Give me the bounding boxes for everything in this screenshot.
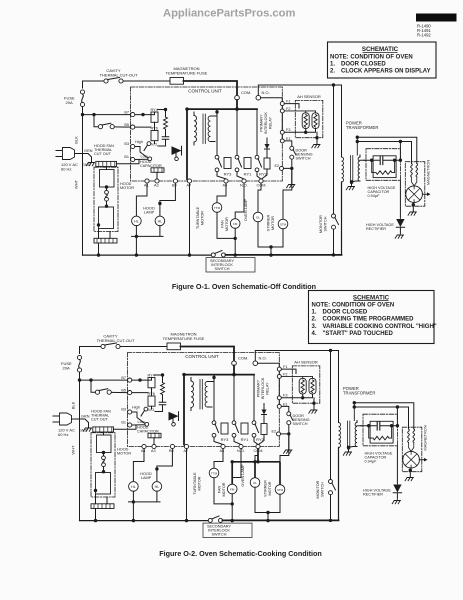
wire top rail to control unit (fig 2) <box>181 347 235 361</box>
wire monitor switch (fig 2) <box>330 351 332 480</box>
label F3 <box>286 128 290 132</box>
label CONTROL UNIT (fig 2) <box>185 354 219 359</box>
wire fan motor to rail <box>234 228 236 255</box>
wire to B7 (fig 2) <box>80 379 128 381</box>
terminal A7 <box>187 179 191 183</box>
turntable motor TTM (fig 2) <box>209 468 219 478</box>
svg-text:MOTOR: MOTOR <box>198 476 202 490</box>
wire RY1 to NO <box>237 172 244 179</box>
label B9 (fig 2) <box>169 449 174 453</box>
svg-text:TRANSFORMER: TRANSFORMER <box>343 391 375 396</box>
hood motor bottom block <box>94 238 117 243</box>
terminal N.O. bottom <box>242 179 246 183</box>
terminal COM bottom <box>259 179 263 183</box>
svg-text:B3: B3 <box>121 408 126 412</box>
wire A1 to hood lamp 1 <box>136 183 147 216</box>
label High <box>135 140 143 144</box>
node fm rail (fig 2) <box>231 519 234 522</box>
magnetron temperature fuse (fig 2) <box>167 343 181 350</box>
svg-text:COOKING TIME PROGRAMMED: COOKING TIME PROGRAMMED <box>323 317 415 323</box>
terminal E2 (fig 2) <box>277 432 281 436</box>
node transformer secondary <box>350 180 353 183</box>
wire RY6 feeds <box>154 127 156 143</box>
label TURNTABLE MOTOR <box>196 206 205 229</box>
wire F1 into sensor (fig 2) <box>279 369 296 404</box>
wire monitor to rail <box>333 229 335 255</box>
label MONITOR SWITCH (fig 2) <box>316 480 325 498</box>
wire magnetron ground (fig 2) <box>409 470 411 476</box>
wire filament 1 (fig 2) <box>354 403 414 429</box>
wire RY3 column <box>216 112 218 155</box>
resistor in control unit (fig 2) <box>161 375 165 402</box>
node hood-fan branch (fig 2) <box>89 378 92 381</box>
wire join to rail (fig 2) <box>267 513 269 521</box>
contact Low (fig 2) <box>145 422 149 426</box>
label PRIMARY INTERLOCK RELAY (fig 2) <box>257 377 270 399</box>
wire hood lamps to rail (fig 2) <box>129 491 161 520</box>
terminal B7 <box>131 113 135 117</box>
wire HV tap to capacitor (fig 2) <box>396 407 398 426</box>
node ttm fm join <box>234 237 237 240</box>
capacitor plates (fig 2) <box>377 422 380 431</box>
svg-text:STM: STM <box>280 222 287 226</box>
label A3 <box>154 184 159 188</box>
svg-text:PRIMARY: PRIMARY <box>257 379 261 397</box>
label GRN (fig 2) <box>81 415 90 419</box>
label MAGNETRON TEMPERATURE FUSE <box>166 66 208 75</box>
terminal F1 <box>280 102 284 106</box>
contact High (fig 2) <box>141 407 148 416</box>
svg-text:MOTOR: MOTOR <box>225 217 229 231</box>
fan motor FM (fig 2) <box>227 484 237 494</box>
node RY1 column top (fig 2) <box>232 373 235 376</box>
stirrer motor STM <box>278 219 288 229</box>
svg-text:THERMAL CUT-OUT: THERMAL CUT-OUT <box>97 338 135 343</box>
label N.O. <box>262 90 270 95</box>
hood lamp HL1 <box>132 216 142 226</box>
wire stirrer motor to rail (fig 2) <box>268 494 280 512</box>
relay RY4 coil <box>151 112 158 122</box>
wire magnetron ground <box>412 205 414 211</box>
door sensing switch (fig 2) <box>287 412 293 425</box>
relay contact RY1 (fig 2) <box>232 421 238 437</box>
svg-text:B9: B9 <box>172 184 177 188</box>
svg-text:NOTE: CONDITION OF OVEN: NOTE: CONDITION OF OVEN <box>312 303 395 309</box>
ground rectifier <box>395 235 403 238</box>
wire N.O. riser <box>258 85 341 95</box>
label POWER TRANSFORMER <box>346 121 378 131</box>
wire top rail left <box>83 81 104 88</box>
thermistor 2 <box>312 113 319 129</box>
svg-text:WHT: WHT <box>71 445 76 455</box>
label E2 (fig 2) <box>272 430 277 434</box>
terminal A1 <box>145 179 149 183</box>
wire N.O. riser (fig 2) <box>255 351 338 361</box>
svg-text:E1: E1 <box>286 137 291 141</box>
wire A3 to hood capacitor (fig 2) <box>153 438 155 445</box>
wire E1 to door switch (fig 2) <box>281 406 288 411</box>
relay contact RY3 <box>215 155 221 171</box>
thermistor 1 (fig 2) <box>299 378 306 394</box>
wire RY1 column <box>236 109 238 155</box>
label HOOD MOTOR <box>120 182 134 190</box>
label RY1 <box>244 172 252 177</box>
secondary interlock switch <box>211 251 225 257</box>
node bus corner <box>235 107 238 110</box>
label RY1 (fig 2) <box>241 437 249 442</box>
wire RY6 feeds (fig 2) <box>151 393 153 409</box>
node hood lamp rail <box>135 235 138 257</box>
HV capacitor inner box (fig 2) <box>370 421 393 443</box>
wire F1 into sensor <box>282 104 299 139</box>
svg-text:RY3: RY3 <box>221 437 229 442</box>
HV capacitor outer box (fig 2) <box>363 414 397 446</box>
terminal N.O. top (fig 2) <box>253 361 258 366</box>
node B7 junction <box>141 113 144 116</box>
label N.O. bottom <box>240 184 248 188</box>
label STIRRER MOTOR (fig 2) <box>264 480 273 497</box>
hood motor bottom block (fig 2) <box>91 504 114 509</box>
svg-text:CONTROL UNIT: CONTROL UNIT <box>185 354 219 359</box>
label HIGH VOLTAGE CAPACITOR (fig 2) <box>365 451 393 463</box>
low voltage transformer (fig 2) <box>191 378 214 411</box>
secondary interlock switch (fig 2) <box>208 516 222 522</box>
svg-text:GND: GND <box>79 428 88 432</box>
label MAGNETRON <box>426 160 431 185</box>
node thermistor join (fig 2) <box>301 396 304 399</box>
hood motor box <box>94 167 118 231</box>
terminal B9 (fig 2) <box>170 444 174 448</box>
wire stirrer motor to rail <box>271 229 283 247</box>
terminal B9 <box>173 179 177 183</box>
terminal B5 (fig 2) <box>128 391 132 395</box>
wire filament 2 <box>357 142 411 164</box>
terminal E1 <box>280 139 284 143</box>
terminal F3 (fig 2) <box>277 396 281 400</box>
wire RY3 column (fig 2) <box>213 378 215 421</box>
oven lamp OL (fig 2) <box>250 478 260 488</box>
label FUSE 20A <box>64 96 75 106</box>
wire bottom rail right <box>226 254 342 256</box>
wire top rail mid <box>123 80 170 82</box>
svg-text:INTERLOCK: INTERLOCK <box>261 377 265 399</box>
wire filament 2 (fig 2) <box>354 407 408 429</box>
wire B3 to High (fig 2) <box>132 412 145 424</box>
label HOOD CAPACITOR <box>140 160 162 168</box>
svg-text:BLK: BLK <box>74 136 79 144</box>
thick bus from COM (fig 2) <box>233 366 235 375</box>
wire B7 to RY4 <box>135 112 155 127</box>
wire to thermal cutout <box>94 115 98 127</box>
svg-text:WHT: WHT <box>74 179 79 189</box>
svg-text:MOTOR: MOTOR <box>201 211 205 225</box>
wire rail to transformer (fig 2) <box>338 448 340 521</box>
node hood motor 3 (fig 2) <box>94 489 97 492</box>
terminal COM top (fig 2) <box>232 361 237 366</box>
contact High <box>144 142 151 151</box>
capacitor plates <box>380 156 383 165</box>
svg-text:DOOR CLOSED: DOOR CLOSED <box>323 310 368 316</box>
svg-text:A1: A1 <box>144 184 149 188</box>
wire secondary to ground (fig 2) <box>348 447 350 451</box>
power transformer (fig 2) <box>339 421 364 450</box>
magnetron antenna <box>422 192 430 196</box>
svg-text:Low: Low <box>138 420 145 424</box>
label B1 <box>124 155 129 159</box>
svg-text:STM: STM <box>277 488 284 492</box>
svg-text:A3: A3 <box>151 449 156 453</box>
wire hood lamps to rail <box>132 226 164 255</box>
HV capacitor inner box <box>373 156 396 178</box>
node bus left (fig 2) <box>182 373 185 376</box>
relay contact RY3 (fig 2) <box>212 421 218 437</box>
svg-text:TURNTABLE: TURNTABLE <box>193 472 197 495</box>
hood lamp HL1 (fig 2) <box>129 482 139 492</box>
terminal COM bottom (fig 2) <box>256 444 260 448</box>
label FAN MOTOR (fig 2) <box>218 482 227 496</box>
svg-text:F3: F3 <box>286 128 290 132</box>
door sensing switch <box>290 146 296 159</box>
svg-text:FAN: FAN <box>221 220 225 228</box>
svg-text:MOTOR: MOTOR <box>222 482 226 496</box>
label GRN <box>84 149 93 153</box>
svg-text:1.: 1. <box>330 61 335 67</box>
svg-text:Figure O-1. Oven Schematic-Off: Figure O-1. Oven Schematic-Off Condition <box>172 282 316 291</box>
svg-text:HL: HL <box>134 219 139 223</box>
label SECONDARY INTERLOCK SWITCH <box>210 259 234 271</box>
node hood motor 3 <box>97 223 100 226</box>
wire F3 bus (fig 2) <box>281 394 312 398</box>
wire RY2 to COM (fig 2) <box>254 437 258 444</box>
node thermistor join <box>304 131 307 134</box>
svg-text:MOTOR: MOTOR <box>120 186 134 190</box>
AH sensor box <box>295 100 323 137</box>
magnetron temperature fuse <box>170 78 184 85</box>
svg-text:A3: A3 <box>154 184 159 188</box>
terminal F1 (fig 2) <box>277 367 281 371</box>
ground door switch <box>287 185 295 188</box>
terminal B5 <box>131 125 135 129</box>
svg-text:Low: Low <box>141 155 148 159</box>
label Low <box>141 155 148 159</box>
svg-text:GRN: GRN <box>84 149 93 153</box>
bleeder resistor <box>372 160 395 174</box>
wire turntable motor to rail (fig 2) <box>214 478 232 504</box>
wire B3 to High <box>135 147 148 159</box>
svg-text:4.: 4. <box>312 331 317 337</box>
wire cap to rectifier (fig 2) <box>396 446 398 484</box>
relay contact RY2 (fig 2) <box>252 421 258 437</box>
wire RY2 column <box>256 109 258 155</box>
wire GRN stub <box>83 154 92 162</box>
label RY2 (fig 2) <box>256 437 264 442</box>
node cap left <box>370 159 373 162</box>
node hood lamp 2 feed (fig 2) <box>155 467 158 470</box>
label PRIMARY INTERLOCK RELAY <box>260 112 273 134</box>
label COM. bottom <box>257 184 267 188</box>
label BLK (fig 2) <box>71 401 76 409</box>
svg-text:B7: B7 <box>121 376 126 380</box>
wire RY1 column (fig 2) <box>233 375 235 421</box>
black redaction bar <box>416 14 457 22</box>
relay RY2 coil <box>264 158 270 169</box>
svg-text:B5: B5 <box>124 123 129 127</box>
svg-text:AH SENSOR: AH SENSOR <box>297 94 321 99</box>
wire monitor to rail (fig 2) <box>330 495 332 521</box>
wire RY3 to A5 <box>217 172 226 179</box>
wire turntable motor to rail <box>217 212 235 238</box>
label N.O. small (fig 2) <box>148 408 155 412</box>
node hood motor 2 (fig 2) <box>102 470 105 473</box>
label N.O. small <box>151 143 158 147</box>
label RY3 (fig 2) <box>221 437 229 442</box>
node magnetron bottom <box>412 203 415 206</box>
node monitor rail (fig 2) <box>329 519 332 522</box>
node bus left <box>185 107 188 110</box>
wire bottom rail left (fig 2) <box>80 520 209 522</box>
relay contact RY1 <box>235 155 241 171</box>
relay RY1 coil (fig 2) <box>241 423 248 434</box>
wire A7 to rail <box>189 183 191 255</box>
svg-text:TURNTABLE: TURNTABLE <box>196 206 200 229</box>
node hood motor rail (fig 2) <box>94 519 97 522</box>
svg-text:B7: B7 <box>124 110 129 114</box>
node cap corner (fig 2) <box>396 424 399 427</box>
relay RY1 coil <box>244 158 251 169</box>
label HIGH VOLTAGE CAPACITOR <box>368 186 396 198</box>
label WHT (fig 2) <box>71 445 76 455</box>
wire B1 to Low (fig 2) <box>132 424 145 426</box>
ground rectifier (fig 2) <box>392 501 400 504</box>
wire F2 into sensor <box>284 111 315 113</box>
node transformer top <box>215 109 218 114</box>
svg-text:B5: B5 <box>121 388 126 392</box>
hood motor winding 1 <box>100 170 115 188</box>
wire hood motor to rail <box>99 167 111 256</box>
node transformer top (fig 2) <box>212 375 215 380</box>
fan motor FM <box>230 219 240 229</box>
wire HV cap top (fig 2) <box>361 425 397 427</box>
plug 120V AC <box>56 148 83 160</box>
ground transformer (fig 2) <box>343 452 351 455</box>
label F1 (fig 2) <box>283 365 287 369</box>
label A1 <box>144 184 149 188</box>
svg-text:RY3: RY3 <box>224 172 232 177</box>
label CONTROL UNIT <box>188 89 222 94</box>
svg-text:OL: OL <box>256 215 260 219</box>
terminal A7 (fig 2) <box>184 444 188 448</box>
svg-text:20A: 20A <box>63 366 70 371</box>
monitor switch (fig 2) <box>329 480 336 495</box>
HV capacitor outer box <box>366 149 400 181</box>
label SECONDARY INTERLOCK SWITCH (fig 2) <box>207 524 231 536</box>
triac <box>172 146 182 160</box>
wire B1 to Low <box>135 158 148 160</box>
wire stirrer motor feed (fig 2) <box>280 437 289 485</box>
filament winding taps <box>356 136 359 156</box>
wire bottom rail right (fig 2) <box>223 519 339 521</box>
wire NO to F1 <box>261 98 283 102</box>
svg-text:SWITCH: SWITCH <box>321 482 325 497</box>
wire transformer primary feed (fig 2) <box>338 351 340 423</box>
svg-text:NOTE: CONDITION OF OVEN: NOTE: CONDITION OF OVEN <box>330 54 413 60</box>
wire left mains vertical (fig 2) <box>79 372 81 520</box>
thick energized feed wires (fig 2) <box>232 449 280 485</box>
label AH SENSOR (fig 2) <box>294 360 318 365</box>
node hood motor 1 <box>105 185 108 188</box>
svg-text:AppliancePartsPros.com: AppliancePartsPros.com <box>163 8 295 20</box>
label HOOD LAMP <box>143 206 155 214</box>
svg-text:"START" PAD TOUCHED: "START" PAD TOUCHED <box>323 331 394 337</box>
node B7 branch <box>81 113 84 116</box>
label F2 (fig 2) <box>283 373 287 377</box>
relay RY3 coil (fig 2) <box>221 423 228 434</box>
label 120 V AC 60 Hz (fig 2) <box>58 427 75 437</box>
wire oven lamp to rail <box>258 222 271 247</box>
diode primary interlock <box>265 138 270 158</box>
wire sensor ground <box>316 132 318 143</box>
svg-text:HL: HL <box>155 485 160 489</box>
ground GND <box>86 163 94 166</box>
node E2 join (fig 2) <box>287 432 290 435</box>
svg-text:SWITCH: SWITCH <box>296 157 311 161</box>
resistor in control unit <box>164 110 168 137</box>
ground transformer <box>346 187 354 190</box>
label N.O. (fig 2) <box>259 355 267 360</box>
svg-text:DOOR CLOSED: DOOR CLOSED <box>341 61 386 67</box>
svg-text:N.O.: N.O. <box>259 355 267 360</box>
magnetron box (fig 2) <box>402 427 422 472</box>
label RY4 (fig 2) <box>148 374 155 378</box>
svg-text:60 Hz: 60 Hz <box>58 432 68 437</box>
svg-text:RECTIFIER: RECTIFIER <box>366 227 386 231</box>
wire join to rail <box>270 247 272 255</box>
ground magnetron <box>408 212 416 215</box>
terminal B1 (fig 2) <box>128 423 132 427</box>
label GND (fig 2) <box>79 428 88 432</box>
plug 120V AC (fig 2) <box>53 413 80 425</box>
wire door switch to ground <box>284 159 292 183</box>
svg-text:CUT OUT: CUT OUT <box>94 152 111 156</box>
label DOOR SENSING SWITCH <box>296 149 313 161</box>
node sensor ground (fig 2) <box>312 402 315 405</box>
label COM. <box>241 90 251 95</box>
terminal A3 (fig 2) <box>152 444 156 448</box>
svg-text:COM.: COM. <box>238 355 248 360</box>
node cap corner <box>399 159 402 162</box>
svg-text:INTERLOCK: INTERLOCK <box>264 112 268 134</box>
label 120 V AC 60 Hz <box>61 162 78 172</box>
svg-text:A1: A1 <box>141 449 146 453</box>
svg-text:R-1492: R-1492 <box>417 33 431 38</box>
svg-text:HL: HL <box>158 219 163 223</box>
label HOOD CAPACITOR (fig 2) <box>137 426 159 434</box>
label RY6 (fig 2) <box>148 392 155 396</box>
hood fan thermal cut-out contacts <box>98 123 114 129</box>
HV rectifier diode (fig 2) <box>393 485 401 500</box>
svg-text:MOTOR: MOTOR <box>117 451 131 455</box>
label F1 <box>286 100 290 104</box>
svg-text:VARIABLE COOKING CONTROL "HIGH: VARIABLE COOKING CONTROL "HIGH" <box>323 324 437 330</box>
label A5 (fig 2) <box>220 449 225 453</box>
label MAGNETRON (fig 2) <box>423 425 428 450</box>
wire bottom rail left <box>83 254 212 256</box>
label RY6 <box>151 127 158 131</box>
fuse F 20A <box>80 90 84 107</box>
label DOOR SENSING SWITCH (fig 2) <box>293 414 310 426</box>
node B7 branch (fig 2) <box>78 378 81 381</box>
svg-text:RY1: RY1 <box>241 437 249 442</box>
